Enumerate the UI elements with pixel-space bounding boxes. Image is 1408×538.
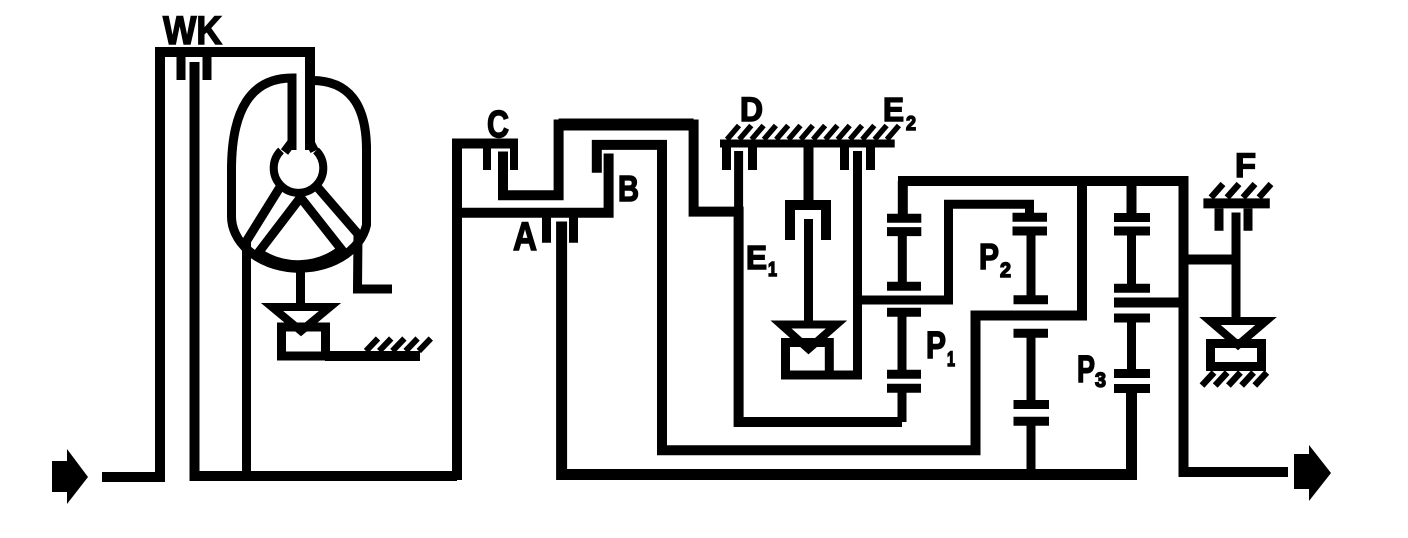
svg-text:1: 1 xyxy=(947,348,955,371)
planetary P1 upper mesh xyxy=(887,218,921,231)
svg-text:F: F xyxy=(1235,147,1256,185)
ground hatching under F freewheel xyxy=(1202,373,1267,386)
svg-text:1: 1 xyxy=(768,259,777,281)
torque converter shell right shoulder xyxy=(312,81,367,151)
wire: E1 freewheel race to E2 shaft xyxy=(830,371,862,380)
clutch B outer bracket, right wall, wire to P2 carrier riser and V-mid riser xyxy=(597,145,1082,450)
torque converter shell body xyxy=(231,145,366,268)
ground hatching F xyxy=(1211,184,1271,198)
wire: stator freewheel to ground xyxy=(325,351,420,361)
planetary P2 sun mesh xyxy=(1014,333,1050,475)
wire: top line P1 ring to output riser, output line xyxy=(898,181,1288,472)
ground bar D/E2 xyxy=(720,140,895,148)
one-way clutch (stator) box xyxy=(282,327,326,356)
wire: E2 inner plate down to freewheel race xyxy=(853,151,862,376)
wire: B drum top bar (thicker) xyxy=(559,119,694,131)
svg-text:P: P xyxy=(926,325,946,367)
wire: C inner plate, riser, B top bar, jog, E1 cage wall and cage bottom xyxy=(503,125,902,423)
wire: turbine vane and output to main shaft xyxy=(247,186,282,477)
planetary P3 upper mesh xyxy=(1114,218,1150,232)
wire: P3 carrier to output riser xyxy=(1114,298,1184,308)
wire: C/A drum left wall and C bar xyxy=(457,144,518,481)
brake F inner plate to freewheel xyxy=(1232,213,1241,320)
planetary P3 sun mesh xyxy=(1114,318,1150,389)
planetary P3 planet pinion xyxy=(1114,231,1150,289)
ground bar F xyxy=(1203,198,1269,208)
brake D plates xyxy=(727,147,753,170)
torque converter hub bowl xyxy=(274,151,324,193)
torque converter bowl neck flares xyxy=(285,142,315,152)
one-way clutch (stator) triangle xyxy=(272,307,330,331)
planetary P2 planet pinion xyxy=(1014,231,1049,300)
svg-text:P: P xyxy=(979,236,999,277)
planetary P3 ring stem xyxy=(1127,181,1137,218)
brake D inner plate xyxy=(734,151,743,216)
brake E1 inner plate to freewheel xyxy=(804,219,813,323)
svg-text:WK: WK xyxy=(163,9,222,53)
brake F plates xyxy=(1219,209,1248,231)
brake E2 plates xyxy=(845,147,871,170)
svg-text:D: D xyxy=(740,91,763,129)
one-way clutch (E1) triangle xyxy=(781,325,837,350)
wire: A bar and B inner plate riser xyxy=(457,154,609,213)
ground hatching stator xyxy=(366,339,431,352)
stator cone xyxy=(259,198,342,265)
wire: impeller vane and pump stub xyxy=(316,186,392,290)
planetary P1 ring stem xyxy=(898,181,908,218)
svg-text:2: 2 xyxy=(906,113,916,135)
wire: A inner plate down, main shaft segment 2, P3 sun riser xyxy=(562,222,1132,475)
wire: WK inner plate down to main shaft segment 1 xyxy=(195,62,458,476)
svg-text:P: P xyxy=(1077,349,1095,391)
brake E1 outer bracket xyxy=(790,205,826,240)
one-way clutch (E1) box xyxy=(786,343,830,376)
wire: P1 carrier to P2 ring bracket xyxy=(858,204,1035,300)
ground hatching D/E2 xyxy=(727,126,899,140)
one-way clutch (F) triangle xyxy=(1210,321,1266,345)
torque converter shell left shoulder and bowl left channel wall xyxy=(232,78,293,170)
svg-text:3: 3 xyxy=(1095,369,1106,392)
planetary P2 upper mesh xyxy=(1013,217,1048,231)
clutch A plates xyxy=(547,217,574,242)
svg-text:C: C xyxy=(487,104,509,146)
svg-text:E: E xyxy=(746,239,767,276)
brake E1 grounded stem xyxy=(804,147,814,204)
svg-text:2: 2 xyxy=(1000,259,1011,282)
input arrow xyxy=(52,449,88,504)
planetary P1 sun mesh xyxy=(887,312,921,422)
output arrow xyxy=(1294,445,1331,501)
stator shaft xyxy=(296,267,305,307)
svg-text:E: E xyxy=(883,91,904,128)
one-way clutch (F) box xyxy=(1211,344,1262,367)
clutch WK plates xyxy=(181,56,207,80)
svg-text:A: A xyxy=(513,215,537,259)
svg-text:B: B xyxy=(618,168,639,209)
wire: input shaft, left riser, WK top bar, converter feed shaft xyxy=(102,52,310,477)
clutch C plates xyxy=(487,148,514,170)
planetary P1 planet pinion xyxy=(887,231,921,287)
wire: branch to brake F xyxy=(1184,255,1237,265)
